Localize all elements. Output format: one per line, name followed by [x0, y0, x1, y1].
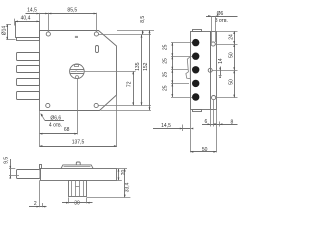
leader to bottom-left hole	[41, 114, 45, 121]
extension lines right	[211, 31, 238, 33]
bolt tab 4	[17, 92, 40, 100]
extension line bottom hole row right	[98, 105, 151, 107]
extension lines hole diameter	[211, 16, 213, 42]
bottom box (spindle housing)	[69, 181, 87, 197]
mounting hole bottom-right	[94, 103, 98, 107]
svg-text:14,5: 14,5	[27, 8, 37, 14]
mounting hole top-right	[94, 32, 98, 36]
bolt spacing 25 x4	[172, 43, 174, 97]
cylinder face	[70, 64, 85, 79]
svg-text:50: 50	[228, 79, 234, 85]
faceplate bottom tab	[193, 110, 202, 112]
cylinder top box	[75, 65, 79, 67]
extension line plate top edge right	[117, 30, 154, 32]
stamp mark	[75, 36, 78, 38]
svg-text:25: 25	[162, 85, 168, 91]
top bolt base strip	[17, 38, 40, 41]
svg-text:9,5: 9,5	[4, 157, 10, 164]
extension tick O14 top	[6, 24, 11, 26]
keyhole slot	[96, 46, 99, 53]
bolt tab 3	[17, 79, 40, 86]
extension body left edge down	[190, 110, 192, 152]
svg-text:40,4: 40,4	[21, 15, 31, 21]
extension line plate bottom right	[101, 110, 152, 112]
cylinder bottom pin	[76, 76, 79, 79]
svg-text:Ø14: Ø14	[2, 26, 8, 36]
flange hole top	[211, 42, 215, 46]
cylinder chord lower	[70, 73, 84, 75]
svg-text:25: 25	[162, 44, 168, 50]
svg-text:152: 152	[143, 62, 149, 71]
bolt tab 2	[17, 66, 40, 73]
lever wedge	[186, 57, 190, 79]
svg-text:25: 25	[162, 58, 168, 64]
mounting hole bottom-left	[46, 103, 50, 107]
right dim column 24/50/50	[234, 31, 236, 98]
body	[191, 32, 211, 110]
bolt circle 1	[192, 39, 199, 46]
svg-text:24: 24	[228, 34, 234, 40]
svg-text:25: 25	[162, 72, 168, 78]
faceplate top tab	[193, 30, 202, 32]
svg-text:8,5: 8,5	[140, 16, 146, 23]
svg-text:135: 135	[135, 62, 141, 71]
svg-text:68: 68	[64, 127, 70, 133]
top bolt block	[16, 22, 40, 38]
extension line top hole row right	[99, 34, 151, 36]
extension line hole top-right up	[96, 13, 98, 32]
bolt circle 2	[192, 53, 199, 60]
svg-text:85,5: 85,5	[67, 7, 77, 13]
body slab	[41, 169, 117, 181]
extension tick left of bolt block	[14, 19, 16, 26]
svg-text:72: 72	[126, 81, 132, 87]
cylinder key profile	[71, 70, 84, 73]
flange hole middle	[208, 68, 212, 72]
svg-text:33,4: 33,4	[125, 182, 131, 192]
bolt circle 5	[192, 93, 199, 100]
box inner lines	[71, 180, 73, 197]
dome inner line	[64, 166, 91, 168]
extension line cylinder centre down	[77, 79, 79, 134]
svg-text:50: 50	[228, 52, 234, 58]
extension line hole top-left up	[48, 13, 50, 32]
svg-text:4 отв.: 4 отв.	[49, 122, 62, 128]
extension line cylinder centre right	[84, 71, 135, 73]
svg-text:137,5: 137,5	[72, 139, 85, 145]
flange strip	[211, 32, 217, 110]
bolt tab 1	[17, 53, 40, 61]
flange hole bottom	[212, 96, 216, 100]
dome knob	[76, 162, 80, 165]
extension line plate left edge down	[39, 110, 41, 147]
svg-text:14: 14	[218, 58, 224, 64]
mounting hole top-left	[46, 32, 50, 36]
cylinder dome	[61, 165, 93, 169]
lock plate outline with chamfered corners	[40, 31, 117, 111]
cylinder chord upper	[70, 69, 84, 71]
bolt circle 4	[192, 80, 199, 87]
extension tick O14 bottom	[6, 39, 15, 41]
svg-text:3 отв.: 3 отв.	[215, 18, 228, 24]
extension line plate right edge down	[116, 96, 118, 147]
svg-text:30: 30	[74, 201, 80, 207]
extension line plate left edge up	[39, 13, 41, 30]
bolt circle 3	[192, 66, 199, 73]
svg-text:6: 6	[205, 119, 208, 125]
faceplate stub	[40, 165, 42, 169]
bolt rod	[17, 170, 41, 179]
